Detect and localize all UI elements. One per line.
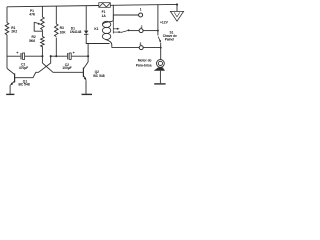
resistor R2 <box>41 36 45 47</box>
wire C2 right to Q2 collector riser <box>72 55 89 57</box>
svg-text:2K2: 2K2 <box>11 30 17 34</box>
svg-text:K1: K1 <box>94 27 98 31</box>
relay contact 2 terminal <box>139 29 143 33</box>
relay K1 coil <box>102 5 113 47</box>
relay contact 3 terminal <box>139 46 143 50</box>
wire cross diagonal to Q2 base <box>42 63 83 72</box>
wire left rail <box>6 7 8 23</box>
wire C1 right to node B <box>25 55 43 57</box>
wire R2 bottom down <box>41 46 43 63</box>
svg-text:+: + <box>16 50 19 55</box>
motor M windshield wiper <box>154 60 165 71</box>
svg-text:+: + <box>73 50 76 55</box>
ground Q2 <box>82 93 93 95</box>
relay contact 1 terminal <box>139 13 143 17</box>
power +12V supply symbol <box>170 5 183 22</box>
svg-text:470µF: 470µF <box>19 66 28 70</box>
wire D1 bottom to coil bottom <box>86 34 109 43</box>
svg-text:1N4148: 1N4148 <box>70 30 82 34</box>
wire coil bottom to contact 3 <box>112 47 139 49</box>
wire P1 column top <box>41 6 43 17</box>
svg-text:10K: 10K <box>60 31 67 35</box>
wire D1 column top <box>85 6 87 31</box>
capacitor C2 electrolytic <box>68 53 72 59</box>
wire R3 bottom <box>55 38 57 57</box>
ground Q1 <box>6 93 14 95</box>
svg-text:3: 3 <box>139 42 141 46</box>
wire contact 2 stub <box>129 30 140 32</box>
node motor junction dot <box>160 47 162 49</box>
wire left rail below R1 <box>6 35 8 69</box>
resistor R3 <box>55 24 59 37</box>
svg-text:R3: R3 <box>60 26 64 30</box>
svg-text:2: 2 <box>141 25 143 29</box>
wire contact 3 to motor column <box>143 47 161 49</box>
wire Q1 emitter to ground <box>9 85 11 94</box>
diode D1 1N4148 <box>84 31 88 35</box>
node B junction dot <box>41 55 43 57</box>
wire P1 wiper return <box>34 22 42 31</box>
wire R3 column top <box>55 6 57 24</box>
potentiometer P1 <box>34 17 44 30</box>
wire C1 branch <box>7 55 20 57</box>
relay armature bar <box>112 15 114 34</box>
relay moving contact lever <box>121 30 129 32</box>
wire Q2 emitter to ground <box>85 80 87 94</box>
wire top +12V rail left segment <box>7 6 99 7</box>
relay armature arrow 2 <box>113 31 121 33</box>
switch S1 <box>158 37 161 43</box>
node D junction dot <box>50 55 52 57</box>
transistor Q1 <box>7 68 15 85</box>
ground motor <box>154 83 165 85</box>
capacitor C1 electrolytic <box>21 53 25 59</box>
svg-text:1A: 1A <box>101 14 106 18</box>
relay armature arrow 1 <box>113 28 119 30</box>
svg-text:Painel: Painel <box>165 38 175 42</box>
transistor Q2 <box>83 62 88 81</box>
wire motor to ground <box>159 71 161 84</box>
svg-text:+12V: +12V <box>160 20 169 24</box>
svg-text:BC 548: BC 548 <box>93 74 104 78</box>
wire contact 2 to S1 column <box>143 30 158 32</box>
svg-text:100µF: 100µF <box>62 66 71 70</box>
node lever pivot dot <box>128 29 130 31</box>
svg-text:47K: 47K <box>29 12 36 16</box>
wire top +12V rail right segment <box>110 3 177 6</box>
wire contact 1 stub <box>113 14 138 16</box>
wire node D down and cross diagonal to Q1 base <box>15 56 51 77</box>
wire P1 to R2 <box>41 30 43 37</box>
svg-text:1: 1 <box>140 8 142 12</box>
svg-text:5K6: 5K6 <box>29 39 35 43</box>
svg-text:BC 548: BC 548 <box>19 83 30 87</box>
svg-text:Pára-brisa: Pára-brisa <box>136 63 152 67</box>
wire Q2 collector riser <box>87 44 89 63</box>
node +12V junction dot <box>176 3 178 5</box>
wire S1 bottom to motor <box>160 43 162 60</box>
wire S1 column from rail <box>157 5 159 36</box>
node S1 top junction dot <box>157 30 159 32</box>
wire node D to C2 <box>51 55 67 57</box>
svg-text:Motor do: Motor do <box>138 59 152 63</box>
node C2 riser junction dot <box>87 55 89 57</box>
resistor R1 <box>5 23 9 35</box>
fuse F1 <box>99 3 111 8</box>
node C junction dot <box>55 55 57 57</box>
